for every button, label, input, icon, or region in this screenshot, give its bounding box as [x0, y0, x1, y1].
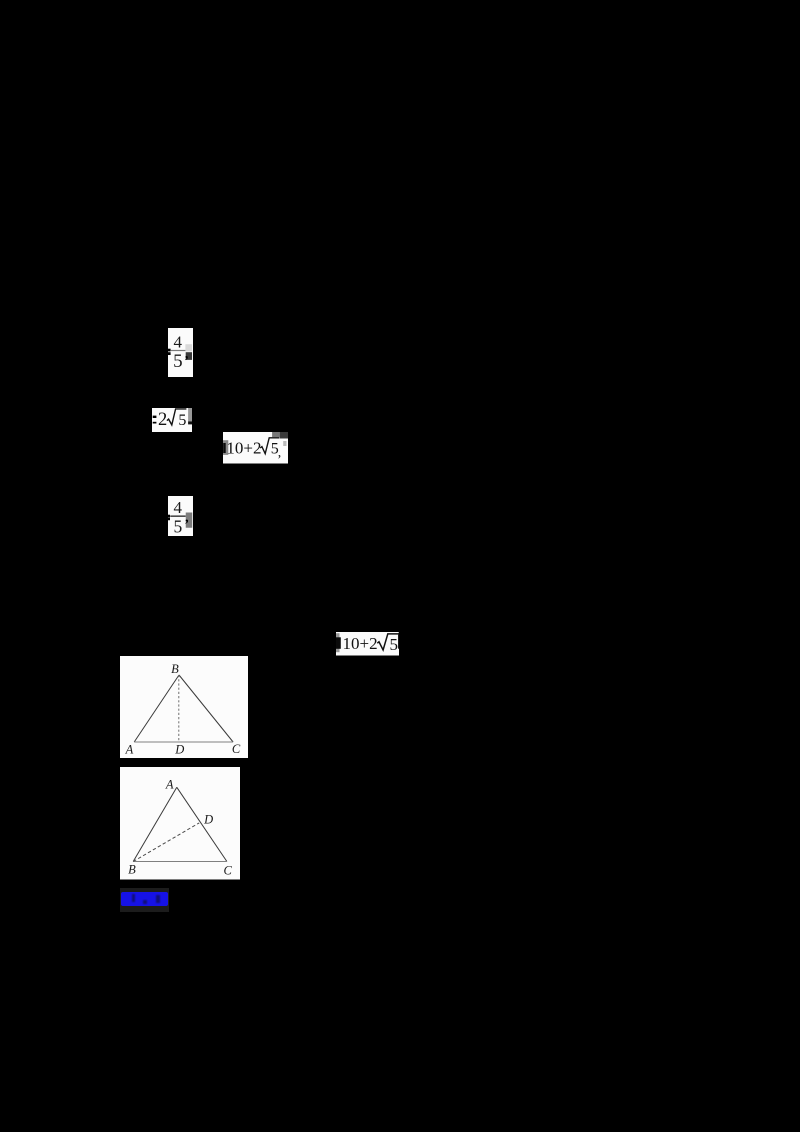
- equation image: 10+2 sqrt(5) (second): [336, 632, 400, 656]
- svg-text:4: 4: [173, 498, 182, 517]
- figure 2: triangle ABC with D on AC and dashed BD: [120, 767, 241, 880]
- svg-text:10+2: 10+2: [227, 439, 262, 458]
- svg-text:5: 5: [173, 351, 183, 372]
- svg-text:2: 2: [158, 410, 167, 430]
- side AB: [133, 787, 177, 861]
- answer label: dark strokes inside blue: [132, 894, 135, 902]
- dashed altitude BD: [177, 675, 179, 742]
- svg-text:10+2: 10+2: [342, 634, 377, 653]
- dashed BD: [133, 823, 199, 862]
- svg-text:A: A: [124, 742, 133, 756]
- base BC: [133, 861, 227, 863]
- answer label: dark box: [120, 888, 169, 912]
- svg-text:D: D: [174, 742, 184, 756]
- equation image: = 2 sqrt(5): [152, 408, 192, 432]
- equation image: 10+2 sqrt(5) (first): [223, 432, 288, 464]
- answer label: blue text blob: [121, 892, 168, 907]
- svg-text:4: 4: [173, 332, 182, 351]
- svg-text:5: 5: [173, 516, 182, 536]
- side BC: [179, 675, 233, 742]
- side AC: [176, 787, 226, 861]
- svg-text:,: ,: [278, 446, 282, 461]
- base AC: [134, 741, 233, 743]
- figure 1: triangle ABC with dashed altitude BD: [120, 656, 249, 759]
- side AB: [134, 675, 179, 742]
- equation image: fraction 4/5 (second): [168, 496, 193, 536]
- svg-text:A: A: [164, 778, 173, 792]
- equation image: fraction 4/5 (first): [168, 328, 193, 377]
- svg-text:5: 5: [389, 635, 398, 654]
- svg-text:B: B: [128, 863, 136, 877]
- svg-text:C: C: [223, 864, 232, 878]
- svg-text:,: ,: [184, 346, 188, 361]
- svg-text:D: D: [203, 813, 213, 827]
- svg-text:5: 5: [178, 412, 186, 429]
- svg-text:C: C: [231, 742, 240, 756]
- svg-text:,: ,: [185, 510, 189, 525]
- svg-text:B: B: [171, 662, 179, 676]
